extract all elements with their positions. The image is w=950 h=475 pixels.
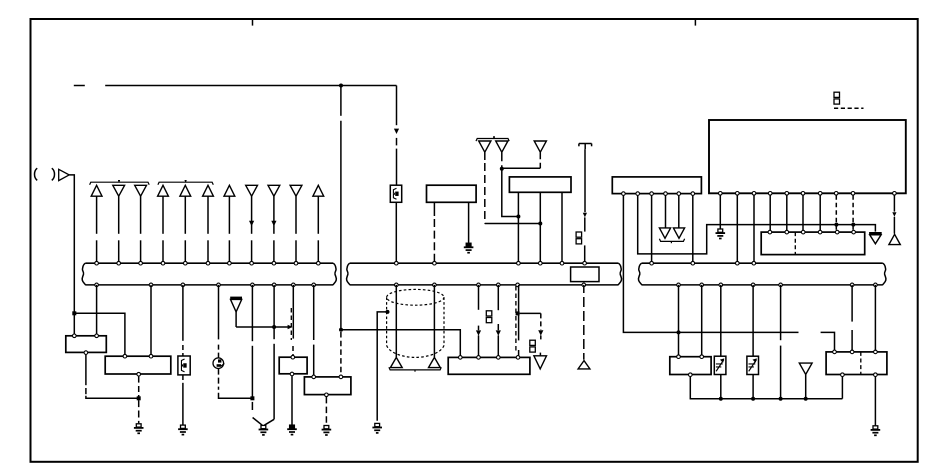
- wire feed to fuse F1 upper: [396, 86, 398, 126]
- box R0 unit: [612, 177, 701, 194]
- wire bus2 drop x583 b: [583, 297, 585, 360]
- crimp arrow on T8 wire: [249, 221, 254, 226]
- wire bus3 drop x753: [752, 285, 754, 356]
- pin on bus 2 bottom at x=396.3: [395, 283, 399, 287]
- pin on bus 2 top at x=562.0: [560, 261, 564, 265]
- box B2: [105, 356, 171, 374]
- wire B8 to ground G5: [325, 397, 327, 425]
- wire T1 to bus1 lower: [96, 240, 98, 261]
- wire feed to fuse F1 lower: [396, 149, 398, 186]
- box B1: [66, 336, 107, 353]
- wire B1 to G1 junction: [86, 396, 139, 399]
- pin on bus 1 bottom at x=274.1: [272, 283, 276, 287]
- pin M3 3: [497, 356, 501, 360]
- page-link triangle T10: [290, 185, 302, 196]
- wire TD7 to rail: [805, 375, 807, 399]
- wire bus3 drop x780 a: [780, 285, 782, 340]
- page-link triangle TP4: [889, 234, 900, 244]
- wire bus1 drop x252 b: [251, 346, 253, 397]
- wire S5 to y327: [235, 312, 237, 327]
- pin R3 3: [801, 230, 805, 234]
- pin B3 top: [291, 355, 295, 359]
- page-link triangle TP3: [578, 361, 590, 369]
- wire R0 pin6: [692, 196, 694, 262]
- box B3: [279, 357, 307, 374]
- wire M1box pin2 to ground: [468, 202, 470, 243]
- pin B8 top-left: [312, 375, 316, 379]
- wire bus1 drop x313 a: [313, 285, 315, 340]
- pin R0 4: [664, 192, 668, 196]
- shield triangle S5: [230, 297, 242, 300]
- wire antenna down c: [584, 245, 586, 261]
- box U1 ECU: [709, 120, 906, 193]
- wire R1 bottom to rail: [689, 377, 691, 399]
- wire TD2 down a: [501, 152, 503, 169]
- pin on bus 1 top at x=163.0: [161, 261, 165, 265]
- node shield drain junction: [386, 310, 390, 314]
- wire bus1 drop x313 b: [313, 345, 315, 376]
- ground rail: [690, 398, 843, 400]
- wire bus1 to lamp M1 a: [218, 285, 220, 340]
- pin U1 3: [752, 192, 756, 196]
- box R1 unit: [670, 357, 711, 375]
- node junction rail x753: [751, 397, 755, 401]
- wire from connector triangle: [69, 175, 74, 313]
- ground G2: [181, 425, 186, 428]
- divider dashed in R3: [794, 232, 796, 255]
- wire rail right up: [841, 377, 843, 399]
- inline connector squares S1: [834, 92, 840, 97]
- wire bus2 drop x498 b: [497, 324, 499, 330]
- wire F2 to ground G2 a: [182, 375, 184, 380]
- wire bus2 drop x517 solid a: [518, 285, 520, 341]
- pin R0 6: [691, 192, 695, 196]
- pin on bus 2 bottom at x=478.5: [477, 283, 481, 287]
- underline below TP pair: [389, 367, 441, 370]
- pin U1 5: [785, 192, 789, 196]
- box M2 control: [509, 177, 571, 192]
- wire U1 pin6: [802, 195, 804, 230]
- crimp arrow x478: [476, 330, 481, 335]
- pin R0 3: [650, 192, 654, 196]
- node junction x540/y223: [538, 222, 542, 226]
- harness bus 3: [642, 262, 883, 264]
- pin on bus 1 top at x=318.3: [317, 261, 321, 265]
- pin B3 bottom: [290, 372, 294, 376]
- pin on bus 1 top at x=296.0: [294, 261, 298, 265]
- pin B1 bottom: [84, 351, 88, 355]
- ground G9: [873, 426, 878, 429]
- pin U1 6: [801, 192, 805, 196]
- box M3 unit: [448, 357, 530, 374]
- wire TD2 down b: [502, 169, 519, 217]
- wire x74 junction to box B1: [73, 313, 75, 334]
- ground G8: [718, 229, 723, 232]
- pin on bus 1 top at x=251.6: [250, 261, 254, 265]
- pin on bus 1 top at x=96.6: [95, 261, 99, 265]
- wire B2 to ground G1 b: [138, 386, 140, 397]
- wire M2 pin3: [561, 192, 563, 261]
- page-link triangle T1: [91, 185, 102, 196]
- arrow into connector pair: [288, 325, 293, 330]
- wire bus2 drop x498 c: [497, 335, 499, 355]
- pin R1 1: [677, 355, 681, 359]
- ground G3: [261, 425, 266, 428]
- pin U1 4: [768, 192, 772, 196]
- pin R2 top2: [850, 350, 854, 354]
- crimp arrow on T9 wire: [271, 221, 276, 226]
- wire feed to fuse F1 dash: [396, 138, 398, 146]
- pin R2 top3: [874, 350, 878, 354]
- pin on bus 1 bottom at x=293.3: [292, 283, 296, 287]
- node junction x501/y169: [500, 167, 504, 171]
- wire R0 pin2 route to S6: [638, 196, 876, 254]
- pin on bus 1 top at x=208.0: [206, 261, 210, 265]
- page-link triangle TD6: [673, 228, 684, 238]
- wire M1 L to junction: [219, 393, 253, 399]
- node junction x853/y224: [851, 223, 855, 227]
- bracket under TD5-TD6: [659, 239, 684, 242]
- page-link triangle T9: [268, 185, 280, 196]
- wire bus1 drop x293 solid a: [292, 285, 294, 339]
- pin U1 1: [719, 192, 723, 196]
- pin on bus 3 bottom at x=678.5: [677, 283, 681, 287]
- pin on bus 3 top at x=651.6: [650, 261, 654, 265]
- wire R0 pin3: [651, 196, 653, 262]
- pin U1 10: [893, 192, 897, 196]
- wire B1 bottom dash: [85, 388, 87, 394]
- crimp arrow U1 pin10: [892, 212, 896, 217]
- pin on bus 3 top at x=753.8: [752, 261, 756, 265]
- wire T5 to bus1 lower: [184, 240, 186, 261]
- pin B2 top-left: [123, 354, 127, 358]
- wire U1 pin1 to ground: [719, 195, 721, 228]
- wire x274 below junction a: [273, 327, 275, 339]
- antenna T symbol: [579, 143, 592, 145]
- wire bus1 drop x293 dashed twin: [290, 308, 292, 340]
- page-link triangle TD5: [659, 228, 670, 238]
- wire y332 continuation: [821, 332, 835, 350]
- harness bus 2: [350, 262, 619, 264]
- wire bus2 drop x517 dashed twin: [515, 286, 517, 352]
- wire R0 pin5: [678, 196, 680, 228]
- pin on bus 3 bottom at x=780.6: [779, 283, 783, 287]
- pin on bus 1 top at x=273.9: [272, 261, 276, 265]
- pin on bus 2 top at x=584.6: [583, 261, 587, 265]
- wire U1 pin9 dashed: [852, 195, 854, 230]
- wire T3 to bus1 lower: [140, 240, 142, 261]
- page-link triangle T8: [246, 185, 258, 196]
- node junction on top feed: [339, 84, 343, 88]
- pin on bus 1 top at x=229.4: [228, 261, 232, 265]
- wire T7 to bus1 lower: [228, 240, 230, 261]
- page-link triangle T6: [203, 185, 214, 196]
- wire x252 below junction: [251, 402, 253, 410]
- wire T2 to bus1 upper: [118, 196, 120, 234]
- photocell F3: [714, 356, 726, 374]
- wire shielded pair 2: [433, 285, 435, 357]
- pin on bus 1 bottom at x=182.9: [181, 283, 185, 287]
- pin B2 top-right: [149, 354, 153, 358]
- wire T10 to bus1 lower: [295, 240, 297, 261]
- wire TD1 bottom L: [485, 223, 541, 225]
- pin R1 2: [700, 355, 704, 359]
- pin R3 4: [818, 230, 822, 234]
- connector parenthesis left: [35, 168, 38, 180]
- pin U1 2: [736, 192, 740, 196]
- node junction square x252/y398: [250, 396, 254, 400]
- wire TD1 down b: [484, 163, 486, 224]
- wire T4 to bus1 lower: [162, 240, 164, 261]
- wire x540 dashed drop a: [540, 313, 542, 329]
- wire T2 to bus1 lower: [118, 240, 120, 261]
- wire T8 to bus1 upper: [251, 196, 253, 234]
- wire bus1 to fuse F2 a: [182, 285, 184, 341]
- wire M1box pin1 a: [433, 202, 435, 216]
- pin R3 1: [768, 230, 772, 234]
- wire bus3 drop x780 b: [780, 346, 782, 399]
- node junction x274/y327: [272, 325, 276, 329]
- wire U1 pin3: [753, 195, 755, 261]
- wire TD3 link vert: [539, 152, 541, 168]
- wire bus1 to lamp M1 b: [218, 345, 220, 358]
- page-link triangle TP1: [390, 357, 402, 367]
- ground G4: [290, 425, 295, 428]
- wire F3 to rail: [720, 375, 722, 399]
- pin on bus 1 bottom at x=313.7: [312, 283, 316, 287]
- wire antenna down a: [584, 149, 586, 212]
- wire bus1 to B1 pin2: [96, 285, 98, 335]
- bracket over triangles T1-T3: [90, 182, 150, 185]
- box R2 unit: [826, 352, 887, 375]
- pin B8 bottom: [325, 393, 329, 397]
- pin on bus 3 top at x=692.8: [691, 261, 695, 265]
- node junction square x517/y313: [516, 311, 520, 315]
- wire T11 to bus1 lower: [317, 240, 319, 261]
- pin on bus 1 bottom at x=252.4: [251, 283, 255, 287]
- page-link triangle TD7: [799, 363, 812, 374]
- wire y313 branch: [520, 312, 541, 314]
- wire y327 horizontal: [236, 326, 289, 328]
- wire vertical trunk x341 lower: [340, 121, 342, 330]
- pin on bus 1 bottom at x=96.6: [95, 283, 99, 287]
- pin on bus 2 bottom at x=583.8: [582, 283, 586, 287]
- connector label box on bus2: [571, 267, 599, 282]
- wire bus1 drop x274: [273, 285, 275, 327]
- wire M2 pin2: [539, 192, 541, 261]
- wire bus2 drop x478 a: [478, 285, 480, 310]
- wire branch y330 to boxM: [341, 330, 460, 356]
- pin B2 bottom: [137, 372, 141, 376]
- wire bus3 drop x720: [720, 285, 722, 356]
- wire T6 to bus1 lower: [207, 240, 209, 261]
- shield triangle S6: [869, 232, 882, 235]
- wire top feed horizontal: [105, 85, 396, 87]
- bracket over triangles TD1-TD2: [476, 139, 509, 142]
- wire B2 to ground G1 a: [138, 376, 140, 382]
- wire U1 pin8 dashed: [835, 195, 837, 230]
- pin M3 2: [477, 356, 481, 360]
- wire junction to ground G1: [138, 400, 140, 423]
- wire bus1 to fuse F2 b: [182, 345, 184, 356]
- node junction square x74/y313: [72, 311, 76, 315]
- page-link triangle T4: [158, 185, 169, 196]
- crimp arrow x540: [538, 330, 543, 335]
- pin R2 bottom1: [841, 373, 845, 377]
- pin B1 top-right: [95, 334, 99, 338]
- wire bus3 drop x852 a: [851, 285, 853, 322]
- pin M3 4: [516, 356, 520, 360]
- wire x293 dash to B3: [292, 346, 294, 356]
- wire T9 to bus1 lower: [273, 240, 275, 261]
- sheet tick mark 1: [252, 20, 254, 26]
- pin R3 2: [785, 230, 789, 234]
- wire y313 branch to box B2: [74, 313, 125, 355]
- crimp arrow x498: [496, 330, 501, 335]
- wire B1 bottom: [85, 355, 87, 386]
- wire T4 to bus1 upper: [162, 196, 164, 234]
- wire bus2 drop x498 a: [497, 285, 499, 310]
- pin R1 bottom: [689, 373, 693, 377]
- page-link triangle T5: [180, 185, 191, 196]
- node junction square x138/y398: [137, 396, 141, 400]
- wire T10 to bus1 upper: [295, 196, 297, 234]
- wire U1 pin2: [736, 195, 738, 261]
- pin on bus 2 top at x=518.4: [517, 261, 521, 265]
- wire T5 to bus1 upper: [184, 196, 186, 234]
- pin on bus 3 bottom at x=875.4: [874, 283, 878, 287]
- wire top feed dashed stub: [74, 85, 85, 87]
- pin R0 1: [622, 192, 626, 196]
- wire TD1 down a: [484, 152, 486, 160]
- wire U1 pin10 b: [893, 217, 895, 234]
- wire T3 to bus1 upper: [140, 196, 142, 234]
- wire T1 to bus1 upper: [96, 196, 98, 234]
- wire x540 dashed drop c: [539, 353, 541, 356]
- photocell F4: [747, 356, 759, 374]
- pin R2 bottom2: [874, 373, 878, 377]
- pin on bus 3 bottom at x=852.1: [850, 283, 854, 287]
- pin on bus 2 bottom at x=498.3: [497, 283, 501, 287]
- wire x274 below junction b: [273, 344, 275, 420]
- node junction rail x780: [779, 397, 783, 401]
- wire T7 to bus1 upper: [228, 196, 230, 234]
- wire bus2 drop x583 a: [583, 285, 585, 293]
- pin on bus 1 bottom at x=218.5: [217, 283, 221, 287]
- node junction x678/y332: [677, 330, 681, 334]
- sheet tick mark 2: [694, 20, 696, 26]
- inline connector squares S4: [576, 232, 582, 237]
- pin on bus 2 top at x=434.4: [433, 261, 437, 265]
- wire F1 to bus2: [395, 202, 397, 261]
- wire F4 to rail: [752, 375, 754, 399]
- wire R2 to ground G9: [874, 377, 876, 426]
- wire vertical trunk x341 upper: [340, 86, 342, 116]
- page-link triangle TD4: [534, 356, 547, 369]
- wire U1 pin7: [819, 195, 821, 230]
- wire TD3 link horiz: [502, 167, 541, 169]
- box B8 relay: [304, 377, 351, 395]
- page-link triangle T2: [113, 185, 125, 196]
- wire x517 to boxM pin: [518, 350, 520, 355]
- node junction x518/y216: [516, 215, 520, 219]
- pin R2 top1: [833, 350, 837, 354]
- page-link triangle TD1: [479, 141, 491, 152]
- wire F2 to ground G2 b: [182, 383, 184, 425]
- harness bus 1: [85, 262, 333, 264]
- inline connector squares S2: [486, 311, 492, 316]
- wire x341 dashed to relay box B8: [340, 332, 342, 375]
- pin R0 2: [636, 192, 640, 196]
- box R3 connector: [761, 232, 865, 255]
- bracket over triangles T4-T6: [158, 182, 213, 185]
- inline connector squares S3: [530, 340, 536, 345]
- pin R3 6: [852, 230, 856, 234]
- wire bus3 drop x852 b: [851, 330, 853, 351]
- ground G5: [324, 426, 329, 429]
- lamp symbol M1: [213, 358, 224, 369]
- wire T8 to bus1 lower: [251, 240, 253, 261]
- wire U1 pin5: [786, 195, 788, 230]
- connector triangle ( )>: [59, 169, 69, 180]
- page-link triangle T11: [313, 185, 324, 196]
- pin B8 top-right: [339, 375, 343, 379]
- wire T11 to bus1 upper: [317, 196, 319, 234]
- wire U1 pin10 a: [893, 195, 895, 211]
- pin R3 5: [835, 230, 839, 234]
- wire B3 to ground G4: [291, 376, 293, 425]
- page-link triangle TP2: [429, 357, 441, 367]
- wire M1box pin1 b: [433, 219, 435, 261]
- wire bus3 drop x875: [874, 285, 876, 351]
- wire x540 dashed drop b: [540, 335, 542, 339]
- wire shielded pair 1: [395, 285, 397, 357]
- wire bus3 drop x678: [678, 285, 680, 357]
- wire U1 pin4: [769, 195, 771, 230]
- pin on bus 2 top at x=396.3: [395, 261, 399, 265]
- divider dashed in R2: [860, 352, 862, 375]
- wire antenna down b: [584, 217, 586, 231]
- ground G7: [466, 243, 471, 246]
- pin U1 8: [834, 192, 838, 196]
- node junction x341/y330: [339, 328, 343, 332]
- page-link triangle T7: [224, 185, 235, 196]
- crimp arrow on antenna wire: [583, 213, 587, 218]
- ground G6: [375, 423, 380, 426]
- wire bus2 drop x478 c: [478, 335, 480, 355]
- pin on bus 2 top at x=540.3: [539, 261, 543, 265]
- box M1 control: [427, 185, 477, 202]
- wire bus1 to B2 pin2: [150, 285, 152, 355]
- pin on bus 3 top at x=737.3: [736, 261, 740, 265]
- wire T9 to bus1 upper: [273, 196, 275, 234]
- pin on bus 1 top at x=185.3: [184, 261, 188, 265]
- node junction rail x720: [719, 397, 723, 401]
- wire x274 diagonal to G3: [264, 419, 274, 425]
- wire bus3 drop x701: [701, 285, 703, 357]
- fuse F1: [390, 185, 401, 202]
- fuse F2: [178, 356, 190, 375]
- dashed lead from S1: [834, 107, 864, 109]
- wire R0 pin1 long drop: [623, 196, 798, 333]
- pin on bus 3 bottom at x=720.8: [719, 283, 723, 287]
- pin U1 9: [851, 192, 855, 196]
- pin on bus 3 bottom at x=701.7: [700, 283, 704, 287]
- wire M1 down: [218, 369, 220, 390]
- node junction x836/y224: [834, 223, 838, 227]
- wire T6 to bus1 upper: [207, 196, 209, 234]
- crimp arrow on F1 feed: [394, 129, 399, 134]
